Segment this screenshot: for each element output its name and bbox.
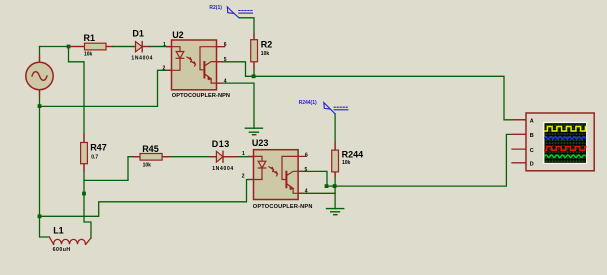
wire R2 bottom to node [253, 62, 255, 77]
AC source V1 [26, 56, 53, 97]
svg-text:R1: R1 [84, 33, 96, 43]
svg-text:OPTOCOUPLER-NPN: OPTOCOUPLER-NPN [253, 204, 313, 210]
wire R45 to D13 to U23 pin1 [162, 156, 253, 158]
svg-text:2: 2 [163, 66, 166, 72]
svg-text:1N4004: 1N4004 [212, 166, 234, 172]
svg-text:5: 5 [305, 167, 308, 173]
wire probe R2(1) to R2 top [239, 18, 254, 40]
wire R244 bottom to node [334, 172, 336, 186]
svg-text:600uH: 600uH [53, 247, 71, 253]
wire main top rail [40, 46, 172, 48]
wire U23 pin4 to ground node [298, 192, 335, 194]
wire AC source bottom lead [39, 90, 41, 106]
resistor R47 [81, 134, 88, 171]
svg-text:10k: 10k [143, 162, 152, 168]
wire U23 pin5 to scope channel B [298, 134, 526, 186]
svg-text:OPTOCOUPLER-NPN: OPTOCOUPLER-NPN [172, 93, 230, 99]
svg-text:6: 6 [224, 42, 227, 48]
svg-text:C: C [530, 148, 534, 154]
node junction dot at R244 bottom [333, 184, 337, 188]
scope trace channel A yellow [545, 127, 586, 132]
resistor R244 [332, 142, 339, 177]
diode D13 [210, 151, 237, 162]
wire AC source top lead [39, 47, 41, 63]
node junction dot at U23 pin5 drop [325, 184, 329, 188]
svg-text:1: 1 [163, 42, 166, 48]
wire R47 bottom to L1 right [84, 164, 91, 238]
wire branch to R45 [84, 157, 140, 181]
svg-text:U2: U2 [172, 30, 184, 40]
voltage probe R2(1) [227, 7, 252, 18]
svg-text:1N4004: 1N4004 [131, 55, 153, 61]
wire U2 pin5 to scope channel A [217, 62, 527, 120]
svg-text:U23: U23 [252, 138, 269, 148]
oscilloscope [512, 113, 594, 171]
node junction dot below R47 [82, 192, 86, 196]
svg-text:R2: R2 [261, 40, 273, 50]
resistor R2 [251, 34, 258, 69]
svg-text:10k: 10k [84, 52, 93, 58]
svg-text:6: 6 [305, 152, 308, 158]
svg-text:4: 4 [224, 79, 227, 85]
node junction dot at R2 bottom [252, 74, 256, 78]
inductor L1 [49, 237, 91, 244]
diode D1 [113, 42, 167, 52]
svg-text:D: D [530, 162, 534, 168]
wire bottom rail to U23 pin2 [40, 180, 254, 217]
wire probe R244(1) to R244 top [334, 114, 336, 150]
wire left rail [40, 106, 50, 237]
scope trace channel B blue [545, 137, 586, 139]
svg-text:4: 4 [305, 188, 308, 194]
svg-text:0.7: 0.7 [91, 154, 98, 160]
wire node to ground below R244 [334, 186, 336, 209]
scope trace channel D green [545, 155, 586, 157]
ground below U2 pin4 [245, 128, 262, 135]
svg-text:10k: 10k [342, 160, 351, 166]
node junction dot at source bottom [38, 104, 42, 108]
resistor R45 [134, 154, 169, 161]
svg-text:L1: L1 [53, 226, 64, 236]
wire U2 pin2 return [40, 70, 172, 106]
svg-text:D1: D1 [132, 29, 144, 39]
resistor R1 [71, 43, 114, 50]
svg-text:R244: R244 [342, 150, 364, 160]
svg-text:A: A [530, 119, 534, 125]
svg-text:10k: 10k [261, 51, 270, 57]
svg-text:R47: R47 [90, 142, 107, 152]
svg-text:B: B [530, 133, 534, 139]
wire jog from node A to R47 [69, 47, 85, 143]
svg-text:R45: R45 [142, 144, 159, 154]
svg-text:R2(1): R2(1) [209, 5, 222, 11]
ground below R244 [327, 209, 344, 215]
node junction dot at bottom rail [38, 214, 42, 218]
svg-text:R244(1): R244(1) [299, 100, 317, 106]
optocoupler U2 [167, 40, 225, 90]
node junction dot at R1 branch [67, 45, 71, 49]
svg-text:2: 2 [242, 174, 245, 180]
scope trace channel C red [545, 147, 586, 150]
svg-text:5: 5 [224, 57, 227, 63]
wire U2 pin4 to ground [217, 83, 255, 128]
svg-text:1: 1 [242, 151, 245, 157]
voltage probe R244(1) [324, 103, 348, 114]
svg-text:D13: D13 [212, 139, 230, 149]
optocoupler U23 [249, 150, 307, 200]
